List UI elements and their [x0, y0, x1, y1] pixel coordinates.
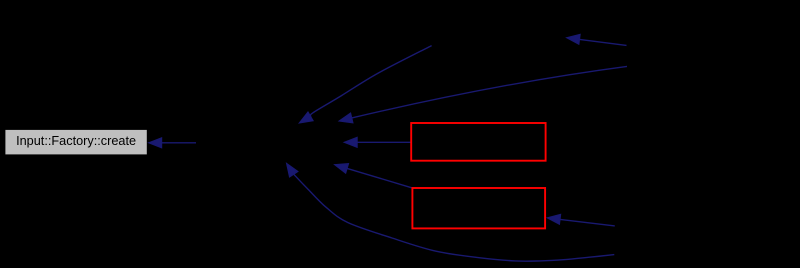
wire edge from red box 2 to middle node — [347, 168, 412, 188]
arrowhead upper into middle node — [339, 113, 353, 123]
node red box 2 (truncated caller) — [412, 188, 545, 228]
arrowhead from red box 1 into middle node — [344, 137, 357, 147]
node Input::Factory::create (current function) — [5, 130, 146, 155]
wire curved edge from top node to middle node — [310, 46, 431, 117]
arrowhead top-left into middle node — [299, 112, 313, 123]
node red box 1 (truncated caller) — [411, 123, 545, 161]
wire edge from right node to top node — [580, 39, 627, 45]
wire edge from bottom-right node to red box 2 — [560, 219, 615, 226]
arrowhead from red box 2 into middle node — [335, 164, 349, 174]
wire edge middle-node to Input::Factory::create — [162, 142, 196, 144]
wire big bottom curve from bottom-right node to middle node — [294, 174, 615, 261]
wire long edge from right node to middle node — [352, 66, 627, 118]
arrowhead into red box 2 — [547, 214, 561, 224]
arrowhead bottom-left into middle node — [287, 163, 299, 177]
wire edge from red box 1 to middle node — [357, 141, 411, 143]
svg-text:Input::Factory::create: Input::Factory::create — [16, 133, 136, 148]
arrowhead into Input::Factory::create — [149, 138, 162, 148]
arrowhead into top node — [567, 34, 581, 44]
